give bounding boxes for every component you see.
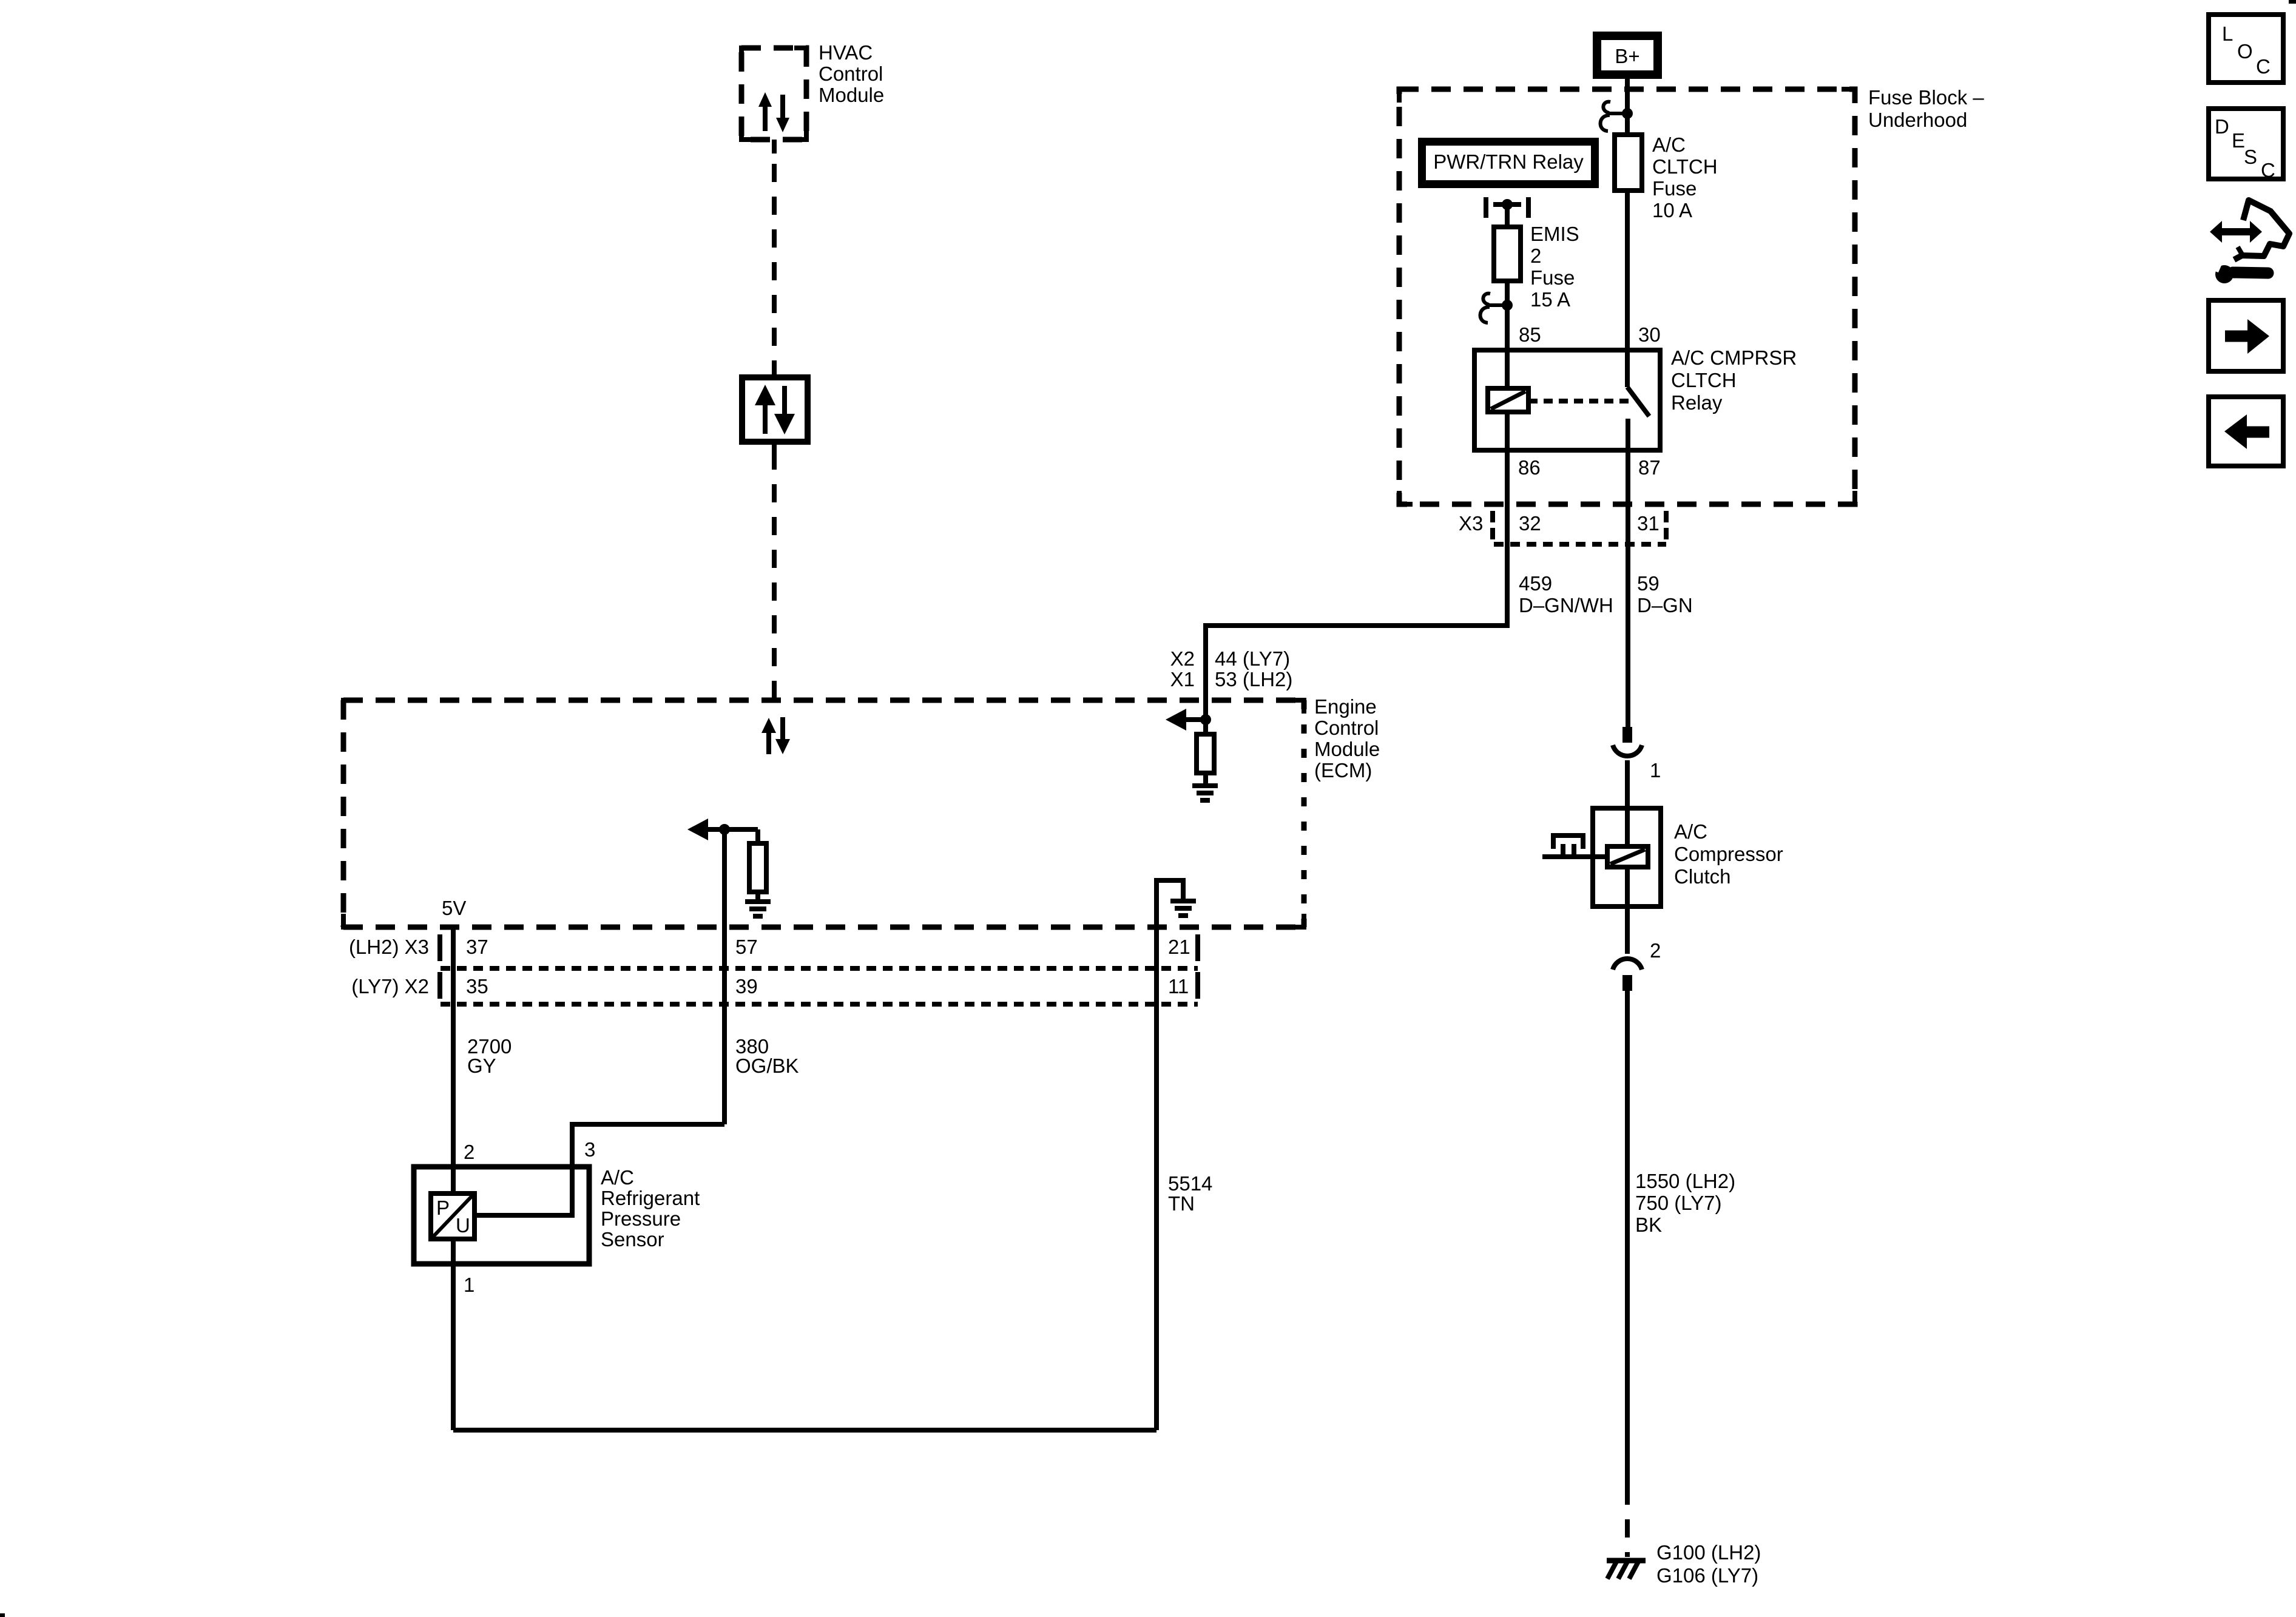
svg-text:Pressure: Pressure (601, 1207, 681, 1230)
wire relay 87 down (1626, 450, 1630, 727)
Fuse block label (1868, 86, 1984, 131)
wire label 59 D-GN (1637, 572, 1693, 616)
svg-text:EMIS: EMIS (1530, 223, 1579, 245)
fuse A/C CLTCH label (1652, 133, 1718, 221)
svg-text:30: 30 (1638, 323, 1661, 346)
svg-text:PWR/TRN Relay: PWR/TRN Relay (1433, 150, 1584, 173)
svg-text:GY: GY (467, 1055, 496, 1077)
svg-text:5V: 5V (442, 897, 466, 919)
svg-text:CLTCH: CLTCH (1671, 369, 1737, 391)
fuse A/C CLTCH 10A (1615, 135, 1642, 191)
corner mark top right (2289, 0, 2296, 4)
wire B+ down (1625, 79, 1630, 135)
svg-text:Control: Control (1314, 717, 1379, 739)
dashed wire to ground (1625, 1487, 1630, 1557)
X2 X1 pin labels (1170, 647, 1293, 690)
jump-to icon harness outline (2234, 200, 2289, 260)
wire labels 380 OG/BK (735, 1035, 799, 1077)
svg-text:(LY7) X2: (LY7) X2 (351, 975, 429, 998)
next arrow box (2209, 300, 2283, 371)
svg-text:U: U (456, 1214, 470, 1237)
HVAC label (819, 41, 884, 106)
svg-text:BK: BK (1635, 1214, 1662, 1236)
svg-text:Module: Module (819, 84, 884, 106)
svg-text:Sensor: Sensor (601, 1228, 664, 1251)
back arrow box (2209, 397, 2283, 466)
DESC nav box (2209, 109, 2283, 181)
svg-text:2: 2 (1530, 245, 1541, 267)
wire 459 D-GN/WH horizontal run (1206, 544, 1507, 720)
svg-text:HVAC: HVAC (819, 41, 873, 64)
svg-text:A/C: A/C (1674, 820, 1707, 843)
svg-text:C: C (2261, 159, 2275, 181)
arrow box arrows (755, 385, 795, 434)
node 5V ref arrow at ECM pin (1166, 709, 1211, 731)
corner mark bottom left (0, 1613, 5, 1617)
svg-text:D: D (2215, 115, 2229, 138)
B+ power symbol (1593, 32, 1662, 79)
wire 2700 GY (451, 927, 456, 1193)
svg-text:37: 37 (466, 936, 488, 958)
ground G100 G106 (1607, 1561, 1646, 1579)
wire 1550 BK down (1625, 991, 1630, 1487)
serial data arrow box (742, 368, 808, 451)
svg-text:Relay: Relay (1671, 391, 1723, 414)
jump-to icon double arrow (2210, 221, 2262, 243)
svg-text:750 (LY7): 750 (LY7) (1635, 1192, 1721, 1214)
svg-text:10 A: 10 A (1652, 199, 1692, 221)
ground ECM pin21 branch (1170, 901, 1196, 916)
svg-text:Fuse Block –: Fuse Block – (1868, 86, 1984, 109)
svg-text:TN: TN (1168, 1192, 1195, 1215)
svg-text:Control: Control (819, 62, 883, 85)
svg-text:35: 35 (466, 975, 488, 998)
svg-text:1: 1 (464, 1274, 474, 1296)
svg-text:(LH2) X3: (LH2) X3 (349, 936, 429, 958)
ground mid ECM (745, 902, 771, 916)
svg-text:Module: Module (1314, 738, 1380, 760)
jump-to icon wrench (2210, 260, 2268, 283)
svg-text:31: 31 (1637, 512, 1660, 535)
svg-text:A/C CMPRSR: A/C CMPRSR (1671, 346, 1797, 369)
fuse EMIS label (1530, 223, 1579, 311)
svg-text:G106 (LY7): G106 (LY7) (1656, 1564, 1758, 1587)
svg-text:21: 21 (1168, 936, 1190, 958)
PWR/TRN Relay box (1418, 138, 1599, 188)
wire EMIS to relay 85 (1505, 305, 1510, 388)
wire 380 to sensor pin 3 (474, 1124, 724, 1215)
relay coil (1488, 388, 1528, 412)
svg-text:O: O (2237, 40, 2253, 62)
wire pin 57 (722, 829, 727, 1124)
svg-text:X1: X1 (1170, 668, 1195, 690)
inline connector pin 2 (1613, 906, 1642, 991)
svg-text:A/C: A/C (1652, 133, 1686, 156)
relay A/C CMPRSR CLTCH box (1474, 350, 1660, 450)
svg-text:44 (LY7): 44 (LY7) (1215, 647, 1290, 670)
svg-text:15 A: 15 A (1530, 288, 1570, 311)
wire dashed arrow box to ECM (772, 451, 777, 700)
clutch coil (1607, 846, 1648, 867)
ground branch ECM pin 21 (1156, 880, 1183, 927)
Engine Control Module box (343, 700, 1304, 927)
wire label 1550 750 BK (1635, 1170, 1735, 1236)
svg-text:Refrigerant: Refrigerant (601, 1187, 700, 1209)
sensor label (601, 1166, 700, 1251)
svg-text:OG/BK: OG/BK (735, 1055, 799, 1077)
svg-text:S: S (2244, 146, 2257, 168)
connector X3 row (1459, 511, 1666, 544)
relay actuate dashed link (1528, 399, 1630, 403)
svg-text:1550 (LH2): 1550 (LH2) (1635, 1170, 1735, 1192)
svg-text:57: 57 (735, 936, 758, 958)
svg-text:Engine: Engine (1314, 695, 1377, 718)
svg-text:Clutch: Clutch (1674, 865, 1731, 888)
svg-text:Compressor: Compressor (1674, 843, 1783, 865)
wire to clutch (1625, 760, 1630, 808)
svg-text:2: 2 (464, 1141, 474, 1163)
ECM label (1314, 695, 1380, 781)
resistor in ECM (pull-up) (1197, 720, 1214, 786)
fuse EMIS 2 15A (1494, 204, 1521, 305)
svg-text:1: 1 (1650, 759, 1661, 781)
svg-text:L: L (2222, 22, 2233, 45)
svg-text:32: 32 (1519, 512, 1541, 535)
svg-text:5514: 5514 (1168, 1172, 1212, 1195)
wire relay 86 down (1505, 412, 1510, 544)
LOC nav box (2209, 15, 2283, 83)
ground label (1656, 1541, 1761, 1587)
svg-text:3: 3 (584, 1138, 595, 1161)
svg-text:B+: B+ (1615, 45, 1639, 67)
svg-text:59: 59 (1637, 572, 1660, 595)
inline connector pin 1 (1613, 727, 1642, 756)
svg-text:CLTCH: CLTCH (1652, 155, 1718, 178)
A/C Refrigerant Pressure Sensor box (414, 1167, 589, 1264)
wire fuse to relay 30 (1625, 191, 1630, 350)
sensor P/U element (431, 1193, 474, 1239)
clip connector at EMIS wire (1481, 294, 1513, 323)
svg-text:459: 459 (1519, 572, 1552, 595)
svg-text:A/C: A/C (601, 1166, 634, 1189)
svg-text:E: E (2232, 129, 2245, 152)
clutch mechanical linkage (1542, 836, 1607, 857)
relay label (1671, 346, 1797, 414)
svg-text:Fuse: Fuse (1530, 266, 1575, 289)
svg-text:X2: X2 (1170, 647, 1195, 670)
HVAC data arrows (758, 92, 789, 132)
clutch label (1674, 820, 1783, 888)
svg-text:G100 (LH2): G100 (LH2) (1656, 1541, 1761, 1564)
connector row labels (349, 936, 1190, 998)
wire 5514 TN (1154, 927, 1159, 1430)
svg-text:87: 87 (1638, 456, 1661, 479)
Fuse Block Underhood box (1399, 89, 1855, 504)
A/C Compressor Clutch box (1593, 808, 1661, 906)
wire sensor pin1 to ground run (453, 1239, 1156, 1430)
svg-text:86: 86 (1518, 456, 1541, 479)
relay switch 30-87 (1627, 350, 1649, 450)
svg-text:39: 39 (735, 975, 758, 998)
svg-text:P: P (436, 1197, 450, 1219)
wire label 459 D-GN/WH (1519, 572, 1613, 616)
svg-text:Underhood: Underhood (1868, 109, 1967, 131)
svg-text:Fuse: Fuse (1652, 177, 1697, 200)
clip connector at B+ wire (1601, 102, 1633, 131)
svg-text:D–GN: D–GN (1637, 594, 1693, 616)
svg-text:11: 11 (1168, 975, 1189, 998)
EMIS bracket terminal (1486, 197, 1528, 218)
ground in ECM right (1192, 786, 1218, 800)
svg-text:C: C (2256, 55, 2271, 78)
wire labels 5514 TN (1168, 1172, 1212, 1215)
ECM connector rows (440, 934, 1198, 1004)
svg-text:X3: X3 (1459, 512, 1483, 535)
svg-text:D–GN/WH: D–GN/WH (1519, 594, 1613, 616)
svg-text:85: 85 (1519, 323, 1541, 346)
arrow node mid ECM (687, 819, 758, 840)
wire labels 2700 GY (467, 1035, 512, 1077)
svg-text:2: 2 (1650, 939, 1661, 962)
svg-text:53 (LH2): 53 (LH2) (1215, 668, 1292, 690)
wire dashed HVAC to arrow box (772, 140, 777, 368)
svg-text:(ECM): (ECM) (1314, 759, 1372, 781)
ECM data arrows (761, 717, 790, 754)
HVAC Control Module box (741, 48, 806, 140)
resistor mid ECM (749, 829, 766, 900)
